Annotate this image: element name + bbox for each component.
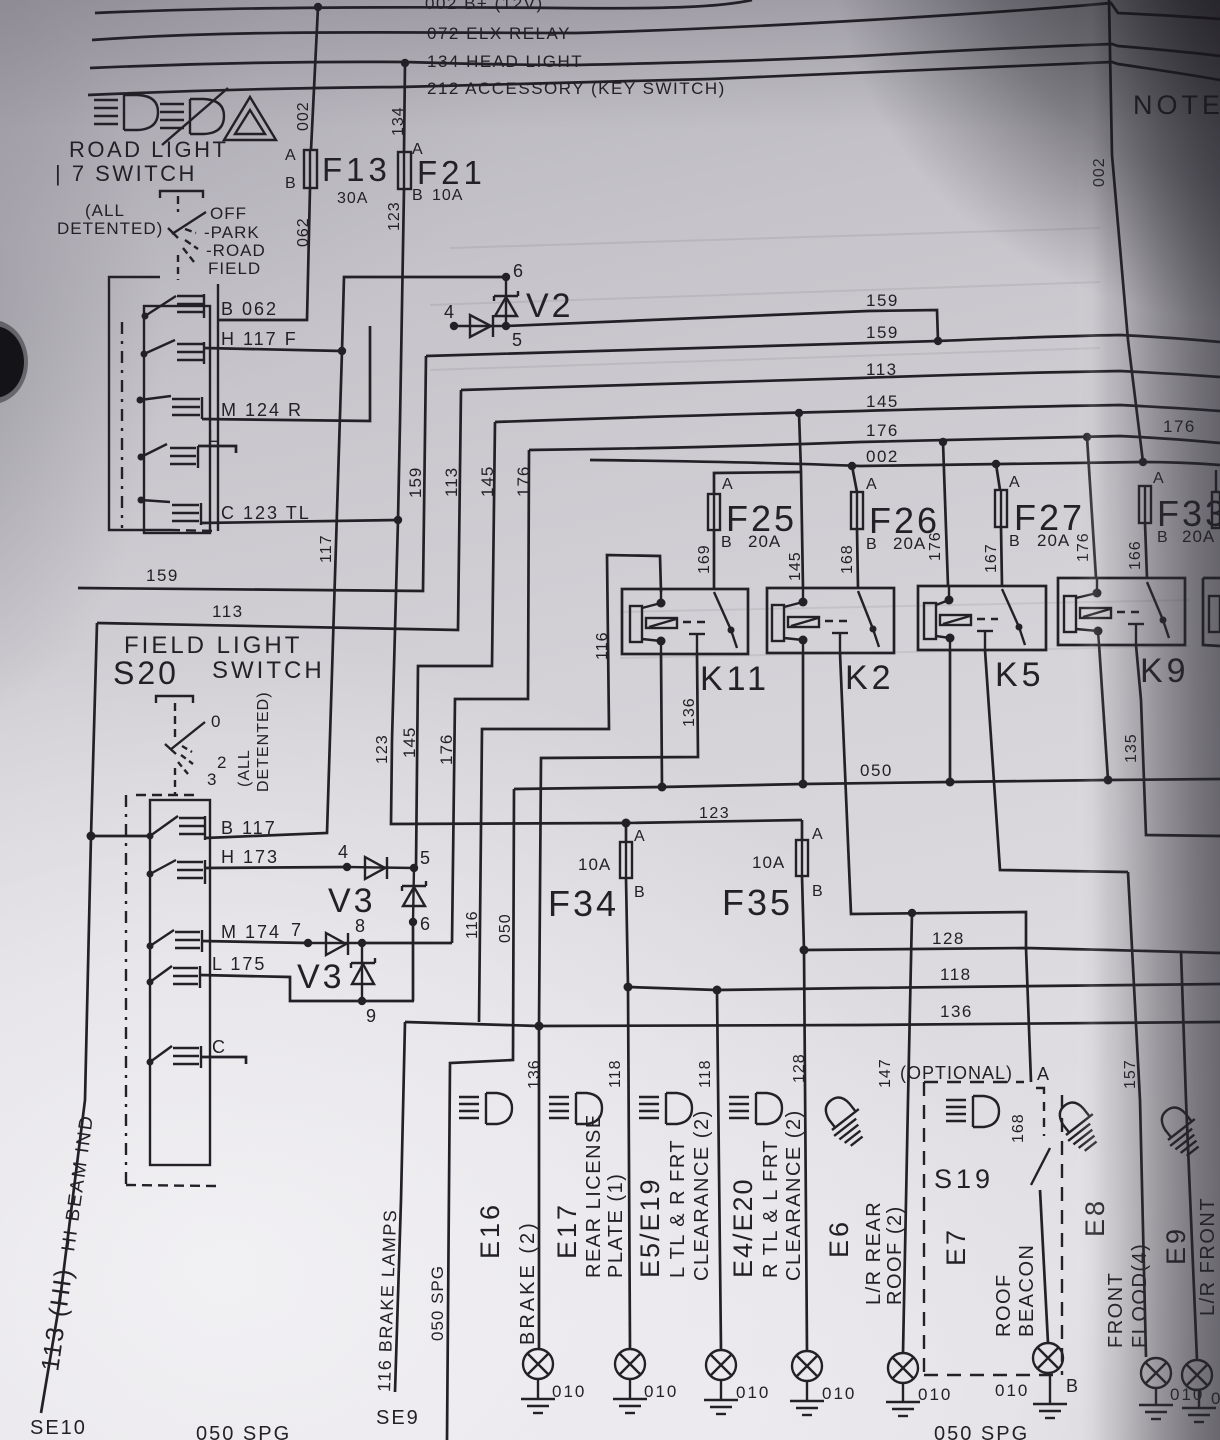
- wire 123 from F21-B down to F34/F35 row: [391, 189, 802, 824]
- wire F25-B to K11 contact: [713, 530, 716, 589]
- wire 072 ELX RELAY bus: [92, 3, 1220, 40]
- fuse F13: [304, 150, 317, 188]
- node C-123TL junction: [394, 516, 402, 524]
- wire 134 HEAD LIGHT bus: [90, 44, 1220, 68]
- wire B 117: [205, 351, 342, 838]
- diode V3 upper vertical: [402, 868, 426, 922]
- ghost bleedthrough lines: [430, 282, 1100, 305]
- icon hazard warning triangle: [224, 97, 276, 140]
- wire L stub: [198, 446, 236, 453]
- node 128 E4: [800, 946, 809, 955]
- icon flood E8: [1050, 1095, 1108, 1155]
- wire F34-B to 118: [626, 878, 628, 987]
- node 118 E17: [624, 983, 633, 992]
- wire H 117F: [204, 348, 342, 351]
- S20 contact C: [147, 1046, 202, 1068]
- wire 136 horizontal: [405, 1022, 1220, 1026]
- node 9 V3: [358, 997, 366, 1005]
- node 002 tap F26: [848, 462, 856, 470]
- wire C stub: [201, 1057, 246, 1064]
- relay K11: [622, 589, 748, 654]
- switch S19 arm: [1031, 1148, 1050, 1185]
- rotary bracket S17: [160, 191, 203, 198]
- diode V2 horizontal: [454, 315, 506, 337]
- fuse F35: [801, 820, 804, 840]
- wire 159 vertical to left: [78, 356, 426, 591]
- node K2 050: [799, 780, 808, 789]
- S20 contact B: [147, 816, 206, 840]
- fuse F34: [622, 819, 631, 828]
- rotary bracket S20: [156, 696, 193, 703]
- icon headlight E5/E19: [639, 1093, 692, 1124]
- wire K9 coil feed from 176: [1087, 437, 1096, 578]
- lamp E7: [1033, 1343, 1063, 1373]
- ground E16: [521, 1379, 555, 1413]
- switch S17 contact frame: [144, 306, 210, 533]
- lamp E9: [1182, 1360, 1212, 1390]
- diode V3 upper horizontal: [347, 857, 414, 879]
- fuse F27: [996, 464, 1000, 490]
- relay K5: [918, 586, 1046, 650]
- wire K2 coil to 050: [802, 653, 805, 784]
- wire 113: [461, 371, 1220, 390]
- wire K5 coil feed from 176: [943, 442, 948, 586]
- wire E8 feeder 157: [1128, 872, 1146, 1357]
- S17 contact L: [138, 444, 199, 468]
- wire left rail 113 to SE10: [41, 623, 97, 1413]
- wire 159 upper from V2 node 5: [506, 310, 938, 341]
- diode V2 vertical: [494, 277, 518, 326]
- wire rail to S20: [91, 835, 148, 838]
- ground E9: [1182, 1390, 1216, 1422]
- wire node 6 down: [412, 922, 415, 1001]
- node tap 134 bus: [401, 59, 409, 67]
- wire S19 to lamp: [1040, 1190, 1048, 1343]
- wire 116 relay branch: [479, 555, 661, 1022]
- wire S19 feeder: [1026, 948, 1031, 1082]
- lamp E17: [615, 1349, 645, 1379]
- optional box S19/E7: [924, 1082, 1062, 1375]
- relay K9: [1058, 578, 1185, 645]
- node 145 tap K2: [795, 409, 803, 417]
- wire 176 vertical jog to V3 node8: [452, 450, 529, 943]
- CONTENT: [55, 88, 398, 533]
- fuse partial right edge: [1215, 470, 1217, 492]
- relay K2: [767, 588, 894, 653]
- wire C 123TL: [201, 520, 398, 523]
- S20 contact H: [147, 860, 206, 884]
- node 8 V3: [358, 939, 366, 947]
- lamp E4: [792, 1351, 822, 1381]
- rotary actuator S17: [168, 212, 206, 280]
- diode V3 lower horizontal: [308, 933, 362, 955]
- rotary actuator S20: [165, 722, 205, 795]
- wire 159 long: [426, 335, 1220, 356]
- wire F25-A branch: [714, 472, 801, 494]
- lamp E6: [888, 1353, 918, 1383]
- wire 145 vertical jog to V3 node5: [416, 422, 495, 868]
- node 6 V3: [409, 918, 417, 926]
- wire M 174 to V3 node 7: [202, 941, 308, 943]
- wire E4/E20 feeder: [804, 950, 807, 1351]
- S20 contact L: [147, 966, 201, 988]
- ground E8: [1139, 1388, 1173, 1419]
- wire node 8 to 176 stair: [362, 942, 452, 945]
- S17 contact M: [137, 396, 203, 419]
- node K5 050: [946, 778, 955, 787]
- node tap 002 bus: [314, 3, 322, 11]
- wire 212 ACCESSORY bus: [88, 62, 1220, 95]
- ground E6: [886, 1383, 920, 1416]
- icon headlight E4/E20: [729, 1093, 782, 1124]
- wire F26-B to K2 contact: [857, 529, 858, 588]
- fuse F33: [1139, 486, 1151, 523]
- wire 145: [495, 405, 1220, 422]
- node 002 tap F33: [1139, 458, 1147, 466]
- diode V2 node 6 link to H wire: [342, 277, 506, 351]
- wire F21 supply from 134 bus: [404, 63, 405, 152]
- node 6: [502, 273, 510, 281]
- ground E4: [790, 1381, 824, 1415]
- node 002 tap F27: [992, 460, 1000, 468]
- node left rail: [87, 832, 96, 841]
- wire F13 supply from 002 bus: [311, 7, 318, 150]
- icon high beam (crossed): [160, 88, 228, 145]
- fuse F21: [398, 152, 411, 189]
- wire 050 SPG vertical: [447, 789, 514, 1440]
- ground E7: [1033, 1373, 1067, 1418]
- S17 contact C: [138, 497, 202, 526]
- node 4 V3: [343, 863, 351, 871]
- node 5: [502, 322, 510, 330]
- wire F33-B to K9 contact: [1145, 523, 1147, 578]
- wire 002 B+ bus: [95, 0, 752, 13]
- lamp E5: [706, 1350, 736, 1380]
- wire K2 coil feed from 145 with F25 branch: [799, 413, 803, 588]
- wire E17 feeder: [628, 987, 630, 1349]
- lamp E16: [523, 1349, 553, 1379]
- switch S20 outer box: [125, 795, 127, 1185]
- fuse F25: [708, 494, 720, 530]
- icon flood E9: [1152, 1100, 1210, 1160]
- wire F35-B to 128: [802, 876, 804, 950]
- wire E6 feeder 147: [903, 913, 912, 1353]
- node K11 050: [658, 783, 667, 792]
- wire 128 horizontal: [804, 948, 1220, 953]
- wire L 175 to node 9: [200, 975, 414, 1001]
- node 118 E5: [713, 986, 722, 995]
- wire 113 vertical to left: [97, 390, 461, 630]
- ground E5: [704, 1380, 738, 1414]
- node 176 tap K9: [1083, 433, 1091, 441]
- wire F27-B to K5 contact: [1001, 527, 1002, 586]
- wire 002 right vertical: [1109, 0, 1143, 462]
- node 5 V3: [410, 864, 418, 872]
- node 7 V3: [304, 939, 312, 947]
- S17 contact B: [142, 294, 205, 320]
- switch S17 outer box: [109, 277, 170, 530]
- wire K5 coil to 050: [949, 650, 952, 782]
- wire 002 horizontal: [590, 460, 1220, 466]
- switch S19 lead dashes: [1036, 1088, 1044, 1094]
- icon headlight E16: [459, 1093, 512, 1124]
- fuse F26: [852, 466, 857, 492]
- wire E16 feeder: [538, 1026, 541, 1349]
- wire K2 output 147 jog: [840, 653, 1026, 948]
- wire 176: [529, 436, 1220, 450]
- wire E9 feeder: [1181, 951, 1197, 1360]
- wire K11 coil to 050: [661, 654, 662, 787]
- wire F13-B to S17-B (062): [218, 188, 310, 320]
- node K9 050: [1104, 776, 1113, 785]
- relay partial right: [1203, 578, 1220, 646]
- lamp E8: [1141, 1358, 1171, 1388]
- S20 contact M: [147, 930, 203, 952]
- node 136 E16: [535, 1022, 544, 1031]
- wire K9 coil to 050: [1099, 644, 1108, 780]
- node 4: [450, 322, 458, 330]
- wire K11 output 136: [539, 654, 698, 1026]
- wire 116 brake lamps to SE9: [395, 1022, 405, 1392]
- wire K9 output 135: [1136, 645, 1220, 836]
- icon headlight E17: [549, 1093, 602, 1124]
- wire H 173 to V3 node 4: [205, 867, 347, 868]
- ground E17: [613, 1379, 647, 1413]
- icon flood E6: [816, 1090, 874, 1150]
- wire 118 horizontal: [628, 984, 1220, 990]
- wire M 124R to V2 node 4: [202, 326, 370, 421]
- wire E5/E19 feeder: [717, 990, 721, 1350]
- node 176 tap K5: [939, 438, 947, 446]
- diode V3 lower vertical: [351, 943, 375, 1001]
- icon headlight E7: [946, 1096, 999, 1127]
- wire K5 output 157 jog: [985, 650, 1128, 872]
- S17 contact H: [141, 340, 205, 364]
- icon low beam headlight: [94, 95, 158, 130]
- photo artifact dark blob left edge: [0, 326, 24, 398]
- wire 050 ground bus: [514, 779, 1220, 789]
- switch S20 contact frame: [150, 800, 210, 1165]
